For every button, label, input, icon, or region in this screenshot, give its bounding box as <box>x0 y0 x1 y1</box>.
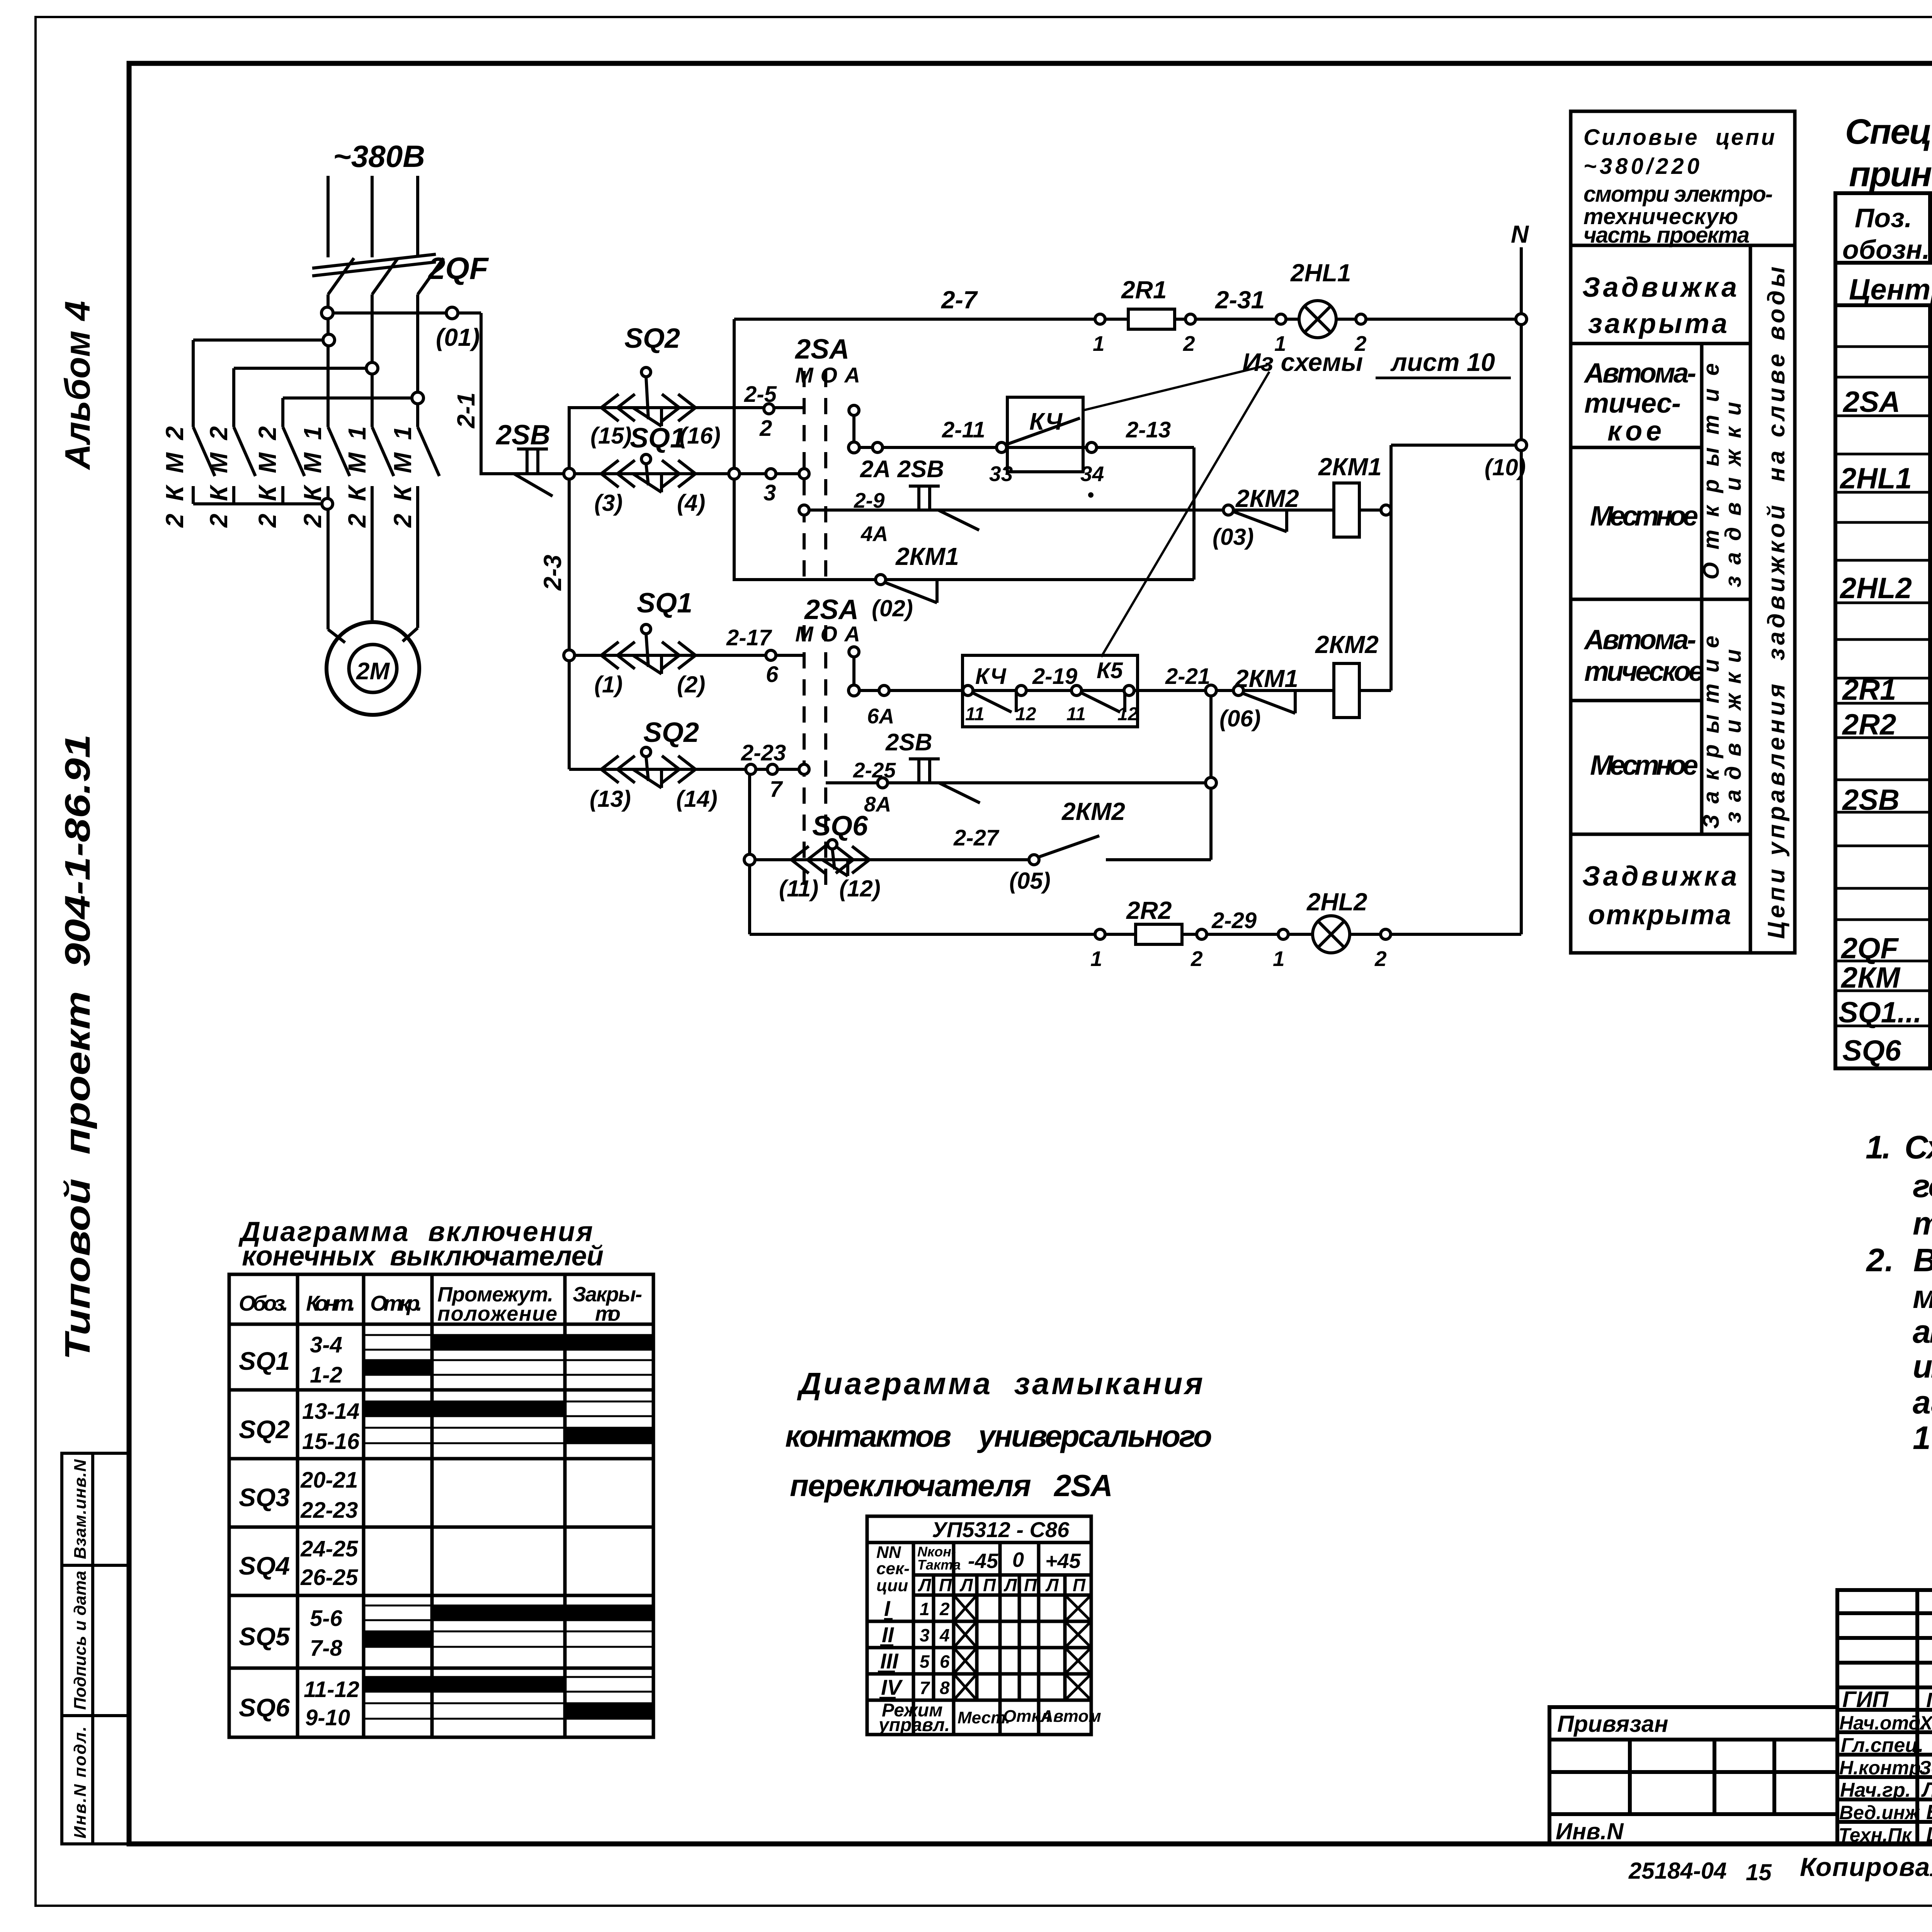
svg-text:2SA: 2SA <box>804 594 859 625</box>
svg-text:2КМ1: 2КМ1 <box>1235 665 1298 692</box>
svg-text:1: 1 <box>920 1599 930 1619</box>
svg-text:5-6: 5-6 <box>310 1606 343 1631</box>
svg-text:1: 1 <box>1093 332 1105 355</box>
svg-text:Подпись и дата: Подпись и дата <box>71 1571 90 1710</box>
svg-text:2-17: 2-17 <box>726 625 772 650</box>
svg-text:15: 15 <box>1746 1859 1772 1885</box>
svg-text:34: 34 <box>1080 462 1104 486</box>
svg-text:тичес-: тичес- <box>1584 388 1681 419</box>
svg-text:1: 1 <box>1274 332 1286 355</box>
svg-text:Силовые цепи: Силовые цепи <box>1583 125 1775 150</box>
svg-text:2: 2 <box>1374 947 1387 971</box>
svg-text:SQ1...: SQ1... <box>1838 996 1922 1029</box>
svg-text:+45: +45 <box>1045 1549 1081 1573</box>
svg-text:2R1: 2R1 <box>1842 673 1896 706</box>
svg-text:2HL2: 2HL2 <box>1306 888 1367 916</box>
svg-text:2QF: 2QF <box>427 251 489 286</box>
svg-text:2КМ1: 2КМ1 <box>343 426 371 528</box>
svg-text:2КМ1: 2КМ1 <box>895 543 959 570</box>
svg-text:то: то <box>595 1302 621 1325</box>
svg-text:Нач.отд.: Нач.отд. <box>1839 1712 1926 1734</box>
svg-text:ции: ции <box>876 1576 908 1595</box>
svg-text:2КМ2: 2КМ2 <box>1061 798 1125 825</box>
svg-text:Инв.N подл.: Инв.N подл. <box>71 1726 90 1838</box>
svg-text:2HL1: 2HL1 <box>1290 259 1351 287</box>
svg-text:1. Схема выполнена для зад: 1. Схема выполнена для задвижки компресс… <box>1866 1129 1932 1165</box>
svg-text:положение: положение <box>437 1302 557 1325</box>
svg-text:Копировал Генюк: Копировал Генюк <box>1800 1852 1932 1882</box>
svg-text:2-23: 2-23 <box>741 740 786 765</box>
svg-text:Привязан: Привязан <box>1557 1711 1668 1737</box>
svg-text:SQ6: SQ6 <box>1842 1034 1901 1067</box>
svg-text:переключателя 2SA: переключателя 2SA <box>790 1468 1113 1503</box>
svg-text:Обоз.: Обоз. <box>239 1291 288 1315</box>
svg-text:Шрамко: Шрамко <box>1926 1823 1932 1846</box>
svg-text:Любимова: Любимова <box>1921 1778 1932 1801</box>
svg-text:1: 1 <box>1273 947 1285 971</box>
svg-text:Инв.N: Инв.N <box>1556 1818 1624 1844</box>
svg-text:2-25: 2-25 <box>853 758 896 782</box>
svg-text:7: 7 <box>770 777 783 802</box>
svg-text:контактов универсального: контактов универсального <box>785 1419 1212 1453</box>
svg-text:25184-04: 25184-04 <box>1628 1858 1727 1884</box>
svg-text:(2): (2) <box>677 672 705 697</box>
svg-text:0: 0 <box>1012 1548 1024 1571</box>
svg-text:12: 12 <box>1117 704 1138 724</box>
svg-text:2-7: 2-7 <box>941 286 978 314</box>
svg-text:11: 11 <box>1066 704 1086 724</box>
svg-text:аппаратов впереди про: аппаратов впереди проставлен <box>1913 1313 1932 1350</box>
svg-text:Автом: Автом <box>1041 1707 1101 1726</box>
svg-text:SQ1: SQ1 <box>239 1347 290 1375</box>
svg-text:М О А: М О А <box>795 622 860 646</box>
svg-text:26-25: 26-25 <box>300 1565 358 1590</box>
svg-text:~380В: ~380В <box>333 139 425 173</box>
svg-text:Гл.спец.: Гл.спец. <box>1841 1734 1923 1757</box>
svg-text:SQ6: SQ6 <box>812 811 868 842</box>
svg-text:(12): (12) <box>839 876 881 901</box>
svg-text:2-21: 2-21 <box>1165 664 1210 689</box>
svg-text:конечных выключателей: конечных выключателей <box>242 1241 604 1272</box>
svg-text:3-4: 3-4 <box>310 1332 342 1357</box>
svg-text:3: 3 <box>764 480 776 505</box>
svg-text:33: 33 <box>989 462 1013 486</box>
svg-text:принципиальной управления: принципиальной управления задвижкой <box>1849 155 1932 194</box>
svg-text:2-11: 2-11 <box>942 417 985 442</box>
svg-text:Л: Л <box>959 1575 973 1595</box>
svg-text:2КМ1: 2КМ1 <box>1318 453 1382 481</box>
svg-text:2-19: 2-19 <box>1032 664 1077 689</box>
svg-text:2SВ: 2SВ <box>885 729 932 756</box>
svg-text:Вед.инж: Вед.инж <box>1839 1802 1920 1823</box>
svg-text:1: 1 <box>1090 947 1102 971</box>
svg-text:смотри электро-: смотри электро- <box>1583 182 1773 207</box>
svg-text:2-27: 2-27 <box>953 825 1000 850</box>
svg-text:22-23: 22-23 <box>300 1498 358 1523</box>
svg-text:задвижки: задвижки <box>1721 402 1746 587</box>
svg-text:(1): (1) <box>594 672 622 697</box>
svg-text:(10): (10) <box>1485 454 1526 480</box>
svg-text:2SB: 2SB <box>495 420 550 451</box>
svg-text:6: 6 <box>940 1651 950 1672</box>
svg-text:2. В таблицах соединений: 2. В таблицах соединений щитов в <box>1866 1242 1932 1278</box>
svg-text:Н.контр.: Н.контр. <box>1839 1757 1926 1779</box>
svg-text:управл.: управл. <box>878 1715 950 1735</box>
svg-text:Григорьян: Григорьян <box>1926 1689 1932 1712</box>
svg-text:2КМ2: 2КМ2 <box>1315 631 1379 658</box>
svg-text:1-2SA , 2-2SA и т.д.: 1-2SA , 2-2SA и т.д. <box>1913 1420 1932 1456</box>
svg-text:2-5: 2-5 <box>744 382 777 407</box>
svg-text:Техн.Пк: Техн.Пк <box>1838 1824 1913 1846</box>
svg-text:(15): (15) <box>590 423 632 449</box>
svg-text:2SA: 2SA <box>794 334 849 365</box>
svg-text:Л: Л <box>1003 1575 1017 1595</box>
svg-text:агрегата например: 1-2-7,: агрегата например: 1-2-7, 2-2-7, <box>1913 1384 1932 1420</box>
svg-text:20-21: 20-21 <box>300 1468 358 1493</box>
svg-text:Цепи управления задвижкой на: Цепи управления задвижкой на сливе воды <box>1763 267 1790 939</box>
svg-text:I: I <box>884 1596 891 1621</box>
svg-text:2КМ: 2КМ <box>1840 961 1901 994</box>
svg-text:8А: 8А <box>864 792 891 816</box>
svg-text:2М: 2М <box>356 658 390 685</box>
svg-text:SQ2: SQ2 <box>239 1415 290 1444</box>
svg-text:Л: Л <box>1045 1575 1059 1595</box>
svg-text:(01): (01) <box>436 323 480 351</box>
svg-text:IV: IV <box>881 1675 903 1699</box>
svg-text:Нач.гр.: Нач.гр. <box>1840 1779 1911 1801</box>
svg-text:9-10: 9-10 <box>305 1705 350 1730</box>
svg-text:П: П <box>983 1575 996 1595</box>
svg-text:сек-: сек- <box>876 1559 910 1578</box>
svg-text:Задвижка: Задвижка <box>1582 861 1737 892</box>
svg-text:-45: -45 <box>968 1549 998 1573</box>
svg-text:индекс по номеру комп: индекс по номеру компрессорного <box>1913 1348 1932 1384</box>
svg-text:III: III <box>880 1649 899 1673</box>
svg-text:П: П <box>1024 1575 1037 1595</box>
svg-text:6А: 6А <box>867 704 894 728</box>
svg-text:2КМ2: 2КМ2 <box>161 426 189 528</box>
svg-text:закрыта: закрыта <box>1588 308 1727 339</box>
svg-text:(11): (11) <box>779 876 818 901</box>
svg-text:(3): (3) <box>594 490 622 516</box>
svg-text:(02): (02) <box>872 595 913 621</box>
svg-text:УП5312 - С86: УП5312 - С86 <box>932 1517 1070 1542</box>
svg-text:7-8: 7-8 <box>310 1636 343 1661</box>
svg-text:1-2: 1-2 <box>310 1362 342 1388</box>
svg-text:П: П <box>1073 1575 1086 1595</box>
svg-text:2КМ1: 2КМ1 <box>389 426 417 528</box>
svg-text:2QF: 2QF <box>1840 932 1899 965</box>
svg-text:2SA: 2SA <box>1842 386 1900 418</box>
svg-text:задвижки: задвижки <box>1721 649 1746 823</box>
svg-text:кое: кое <box>1607 416 1662 447</box>
svg-text:Типовой проект 904-1-86.91: Типовой проект 904-1-86.91 <box>58 734 97 1360</box>
svg-text:Бутенко: Бутенко <box>1926 1801 1932 1824</box>
svg-text:тов N2,3,4,5 схема анал: тов N2,3,4,5 схема аналогична. <box>1913 1205 1932 1242</box>
svg-text:SQ1: SQ1 <box>630 423 685 454</box>
svg-text:Альбом 4: Альбом 4 <box>58 301 97 470</box>
svg-text:(03): (03) <box>1213 524 1254 550</box>
svg-text:12: 12 <box>1015 704 1036 724</box>
svg-text:2R2: 2R2 <box>1126 896 1172 924</box>
svg-text:(4): (4) <box>677 490 705 516</box>
svg-text:2КМ1: 2КМ1 <box>299 426 327 528</box>
svg-text:2HL2: 2HL2 <box>1839 572 1912 605</box>
svg-text:2-3: 2-3 <box>539 555 566 591</box>
svg-text:4: 4 <box>939 1625 950 1645</box>
svg-text:2А 2SВ: 2А 2SВ <box>860 456 944 483</box>
svg-text:2SB: 2SB <box>1842 784 1900 816</box>
svg-text:15-16: 15-16 <box>302 1429 360 1454</box>
svg-text:Л: Л <box>918 1575 932 1595</box>
svg-text:Автома-: Автома- <box>1583 358 1696 389</box>
svg-text:11: 11 <box>965 704 985 724</box>
svg-text:13-14: 13-14 <box>302 1399 359 1424</box>
svg-text:2-13: 2-13 <box>1126 417 1171 442</box>
svg-text:2: 2 <box>759 416 772 441</box>
svg-text:5: 5 <box>920 1651 930 1672</box>
svg-text:го агрегата N1, для компре: го агрегата N1, для компрессорных агрега… <box>1913 1168 1932 1204</box>
svg-text:Поз.: Поз. <box>1855 203 1912 233</box>
svg-text:SQ5: SQ5 <box>239 1622 290 1651</box>
svg-text:КЧ: КЧ <box>1029 408 1063 435</box>
svg-text:открыта: открыта <box>1588 900 1731 930</box>
svg-text:24-25: 24-25 <box>300 1536 358 1561</box>
svg-text:2R1: 2R1 <box>1121 276 1167 304</box>
svg-text:Взам.инв.N: Взам.инв.N <box>71 1459 90 1559</box>
svg-text:3: 3 <box>920 1625 930 1645</box>
svg-text:часть проекта: часть проекта <box>1583 223 1750 248</box>
svg-text:11-12: 11-12 <box>304 1677 359 1702</box>
svg-text:ГИП: ГИП <box>1842 1687 1889 1712</box>
svg-text:Мест.: Мест. <box>957 1708 1010 1727</box>
svg-text:7: 7 <box>920 1678 930 1698</box>
svg-text:К5: К5 <box>1097 658 1123 683</box>
svg-text:SQ4: SQ4 <box>239 1551 290 1580</box>
svg-text:Золотарева: Золотарева <box>1919 1757 1932 1779</box>
svg-text:2HL1: 2HL1 <box>1839 462 1912 495</box>
svg-text:6: 6 <box>766 662 779 687</box>
svg-text:N: N <box>1511 220 1529 248</box>
svg-text:SQ1: SQ1 <box>637 588 692 619</box>
svg-text:2КМ2: 2КМ2 <box>1235 485 1299 512</box>
svg-text:SQ2: SQ2 <box>643 717 699 748</box>
svg-text:Местное: Местное <box>1590 501 1698 532</box>
svg-text:SQ6: SQ6 <box>239 1693 290 1722</box>
svg-text:Центральный щит компрессо: Центральный щит компрессорной Щит 2(3.4) <box>1849 273 1932 306</box>
svg-text:2КМ2: 2КМ2 <box>253 426 281 528</box>
svg-text:Спецификация к схеме: Спецификация к схеме электрической <box>1845 112 1932 151</box>
svg-text:(05): (05) <box>1009 868 1051 894</box>
svg-text:2КМ2: 2КМ2 <box>205 426 233 528</box>
svg-text:Откр.: Откр. <box>370 1291 422 1315</box>
svg-text:2: 2 <box>939 1599 950 1619</box>
svg-text:Конт.: Конт. <box>306 1291 355 1315</box>
svg-text:КЧ: КЧ <box>975 664 1007 689</box>
svg-text:(13): (13) <box>590 786 631 812</box>
svg-text:2R2: 2R2 <box>1842 708 1896 741</box>
svg-text:2-31: 2-31 <box>1215 286 1265 314</box>
svg-text:(14): (14) <box>676 786 718 812</box>
svg-text:обозн.: обозн. <box>1842 235 1930 265</box>
svg-text:Автома-: Автома- <box>1583 624 1696 655</box>
svg-text:SQ3: SQ3 <box>239 1483 290 1512</box>
svg-text:2: 2 <box>1354 332 1367 355</box>
svg-text:Диаграмма замыкания: Диаграмма замыкания <box>797 1366 1203 1401</box>
svg-text:II: II <box>882 1622 895 1647</box>
svg-text:(06): (06) <box>1219 706 1261 731</box>
svg-text:2-29: 2-29 <box>1211 908 1257 933</box>
svg-text:2-9: 2-9 <box>854 488 885 512</box>
svg-text:тическое: тическое <box>1584 656 1704 687</box>
svg-text:SQ2: SQ2 <box>624 323 680 354</box>
svg-text:маркировке цепей управл: маркировке цепей управления и <box>1913 1279 1932 1315</box>
svg-text:Местное: Местное <box>1590 750 1698 781</box>
svg-text:2: 2 <box>1190 947 1203 971</box>
svg-text:П: П <box>939 1575 952 1595</box>
svg-text:2: 2 <box>1183 332 1195 355</box>
svg-text:Такта: Такта <box>917 1557 961 1573</box>
svg-text:4А: 4А <box>861 522 888 546</box>
svg-text:2-1: 2-1 <box>452 393 480 429</box>
svg-text:Задвижка: Задвижка <box>1582 272 1737 303</box>
svg-text:~380/220: ~380/220 <box>1583 154 1699 179</box>
svg-text:Закрытие: Закрытие <box>1699 636 1724 829</box>
svg-text:М О А: М О А <box>795 363 860 387</box>
svg-text:Христофоров: Христофоров <box>1918 1712 1932 1734</box>
svg-text:8: 8 <box>940 1678 950 1698</box>
